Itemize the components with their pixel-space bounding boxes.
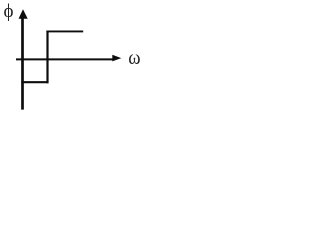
vertical axis arrowhead xyxy=(19,9,28,19)
phase step curve: vertical jump segment xyxy=(46,31,48,84)
horizontal axis (omega) shaft xyxy=(16,58,113,60)
vertical axis (phi) shaft xyxy=(21,17,24,110)
horizontal axis arrowhead xyxy=(112,55,121,62)
phase step curve: upper horizontal segment xyxy=(46,30,83,32)
svg-text:ϕ: ϕ xyxy=(4,1,14,22)
phase step curve: lower horizontal segment xyxy=(21,81,48,83)
svg-text:ω: ω xyxy=(128,48,140,69)
